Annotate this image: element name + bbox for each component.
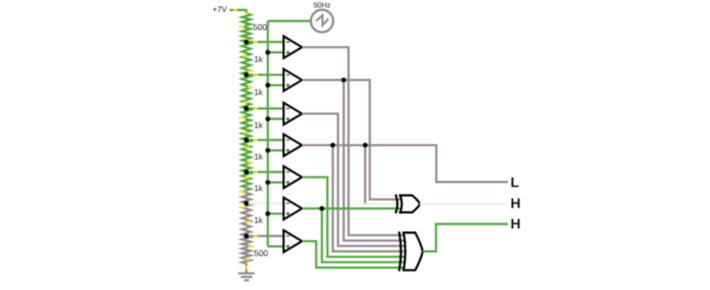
wire X1 output to logic output H1: [420, 203, 507, 205]
node tap 4 junction: [244, 138, 249, 143]
wire faint XOR1 middle input: [365, 203, 401, 205]
node U2 output junction: [341, 78, 346, 83]
wire bus to U4 non-inverting input: [268, 149, 284, 151]
node U4 output junction B: [363, 143, 368, 148]
wire tap 5 to U5 inverting input: [246, 171, 283, 173]
resistor R5 1k: [242, 140, 251, 172]
node bus junction 2: [265, 83, 270, 88]
op-amp comparator U4: [284, 134, 302, 156]
wire U5 output to XOR2 input 5: [302, 177, 404, 257]
wire tap 2 to U2 inverting input: [246, 74, 283, 76]
wire U3 output to XOR2 input 3: [302, 114, 404, 246]
resistor R2 1k: [242, 42, 251, 75]
node bus junction 1: [265, 50, 270, 55]
wire U1 output to XOR2 input 1: [302, 47, 404, 235]
node bus junction 6: [265, 211, 270, 216]
node tap 3 junction: [244, 106, 249, 111]
op-amp comparator U2: [284, 69, 302, 91]
wire tap 1 to U1 inverting input: [246, 41, 283, 43]
node U4 output junction A: [330, 143, 335, 148]
op-amp comparator U5: [284, 166, 302, 188]
svg-text:500: 500: [254, 248, 268, 258]
svg-text:L: L: [511, 174, 520, 190]
resistor R3 1k: [242, 75, 251, 109]
wire U6 output to XOR1 input 3: [302, 207, 401, 209]
svg-text:1k: 1k: [254, 120, 264, 130]
wire bus to U7 non-inverting input: [268, 245, 284, 247]
wire U4 output branch to XOR2 input 4: [333, 145, 404, 251]
wire U2 output to XOR2 input 2: [302, 80, 404, 241]
svg-text:1k: 1k: [254, 152, 264, 162]
node bus junction 3: [265, 117, 270, 122]
wire U7 output to XOR2 input 7: [302, 241, 404, 267]
wire bus to U2 non-inverting input: [268, 84, 284, 86]
svg-text:H: H: [511, 215, 521, 231]
xor gate X2: [399, 232, 401, 272]
wire tap 3 to U3 inverting input: [246, 107, 283, 109]
svg-text:1k: 1k: [254, 87, 264, 97]
op-amp comparator U1: [284, 36, 302, 58]
op-amp comparator U7: [284, 230, 302, 252]
wire X2 output to logic output H2: [423, 224, 508, 251]
AC source V1: [311, 10, 333, 32]
resistor R4 1k: [242, 109, 251, 141]
op-amp comparator U6: [284, 198, 302, 220]
wire signal bus vertical: [267, 21, 269, 246]
wire +7V feed: [230, 10, 247, 14]
node tap 2 junction: [244, 72, 249, 77]
wire AC source to bus: [268, 20, 311, 22]
wire tap 4 to U4 inverting input: [246, 139, 283, 141]
svg-text:1k: 1k: [254, 215, 264, 225]
wire U4 output to logic output L: [302, 145, 508, 182]
resistor R6 1k: [242, 172, 251, 203]
ground: [238, 273, 255, 280]
wire bus to U3 non-inverting input: [268, 118, 284, 120]
xor gate X1: [396, 194, 398, 213]
wire U6 output branch to XOR2 input 6: [322, 209, 404, 263]
wire bus to U6 non-inverting input: [268, 213, 284, 215]
wire ground lead: [245, 264, 247, 273]
svg-text:+7V: +7V: [213, 5, 228, 14]
node bus junction 4: [265, 148, 270, 153]
node tap 5 junction: [244, 170, 249, 175]
node bus junction 5: [265, 180, 270, 185]
wire U4 output branch down to XOR1 input 2: [364, 145, 366, 204]
wire bus to U5 non-inverting input: [268, 181, 284, 183]
resistor R8 500: [242, 236, 251, 264]
svg-text:500: 500: [253, 22, 267, 32]
wire tap 6 to U6 inverting input: [246, 202, 283, 204]
svg-text:1k: 1k: [254, 183, 264, 193]
wire bus to U1 non-inverting input: [268, 51, 284, 53]
node tap 1 junction: [244, 40, 249, 45]
resistor R7 1k: [242, 203, 251, 236]
wire U2 output branch to XOR1 input 1: [344, 80, 401, 199]
wire tap 7 to U7 inverting input: [246, 235, 283, 237]
node tap 6 junction: [244, 201, 249, 206]
svg-text:50Hz: 50Hz: [313, 1, 330, 10]
svg-text:H: H: [511, 195, 521, 211]
svg-text:1k: 1k: [254, 54, 264, 64]
resistor R1 500: [242, 14, 251, 43]
node tap 7 junction: [244, 234, 249, 239]
op-amp comparator U3: [284, 103, 302, 125]
node U6 output junction: [320, 206, 325, 211]
